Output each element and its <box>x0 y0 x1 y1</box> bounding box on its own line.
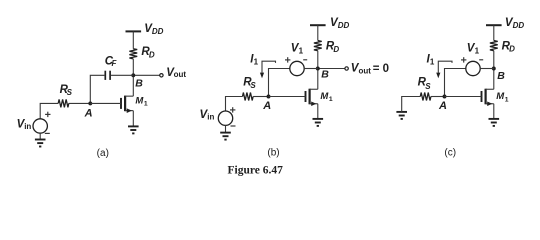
source Vin (a) <box>33 119 47 133</box>
resistor RS (c) <box>420 93 431 101</box>
wire CF to node B (a) <box>111 74 133 76</box>
power rail VDD (a) <box>126 30 142 32</box>
svg-text:B: B <box>497 70 505 82</box>
wire V1 to node B (b) <box>304 68 318 70</box>
ground at RS input (c) <box>396 112 407 119</box>
label V1 (b) <box>291 43 304 56</box>
label M1 (c) <box>496 91 509 103</box>
label A (a) <box>84 107 93 119</box>
label B (c) <box>497 70 505 82</box>
ground at M1 source (b) <box>313 119 324 126</box>
wire RS to node A (a) <box>69 102 91 104</box>
wire node A up to CF (a) <box>90 75 104 103</box>
label B (b) <box>321 69 329 81</box>
wire Vin to ground (b) <box>225 125 227 132</box>
plus sign Vin (a) <box>45 112 50 117</box>
source V1 (b) <box>290 61 304 75</box>
label Vout = 0 (b) <box>351 63 389 76</box>
node A (b) <box>267 95 271 99</box>
node B (b) <box>316 67 320 71</box>
label (a) <box>97 148 109 159</box>
current arrow I1 (c) <box>436 61 452 78</box>
wire Vin to ground (a) <box>39 133 41 140</box>
wire node A up to V1 (c) <box>445 69 467 97</box>
svg-text:1: 1 <box>254 58 259 67</box>
svg-text:D: D <box>149 50 155 59</box>
svg-text:out: out <box>174 70 187 79</box>
source V1 (c) <box>466 61 480 75</box>
label V1 (c) <box>467 43 480 56</box>
wire source to ground (b) <box>317 104 319 119</box>
svg-text:B: B <box>321 69 329 81</box>
resistor RD (b) <box>314 41 322 51</box>
label CF (a) <box>105 55 118 67</box>
svg-text:(a): (a) <box>97 148 109 159</box>
wire source to ground (a) <box>132 111 134 127</box>
ground at M1 source (a) <box>128 126 139 133</box>
wire VDD to RD (b) <box>317 25 319 40</box>
svg-text:DD: DD <box>513 21 525 30</box>
minus sign Vin (b) <box>231 125 236 127</box>
wire VDD to RD (a) <box>132 31 134 48</box>
wire node B to output (a) <box>133 74 159 76</box>
terminal Vout (a) <box>160 74 163 77</box>
transistor M1 (b) <box>306 89 318 106</box>
wire node B to drain (a) <box>132 75 134 96</box>
svg-text:in: in <box>24 122 31 131</box>
svg-text:A: A <box>438 100 447 112</box>
wire Vin up to RS (b) <box>226 97 243 112</box>
svg-text:S: S <box>250 81 256 90</box>
resistor RS (a) <box>58 99 69 107</box>
svg-text:Figure 6.47: Figure 6.47 <box>228 164 284 176</box>
caption Figure 6.47 <box>228 164 284 176</box>
label Vin (a) <box>17 119 32 132</box>
label Vin (b) <box>200 109 215 122</box>
wire gate lead (a) <box>90 102 121 104</box>
svg-text:DD: DD <box>338 21 350 30</box>
label RD (c) <box>502 40 515 53</box>
svg-text:D: D <box>333 45 339 54</box>
node A (a) <box>88 101 92 105</box>
wire RD to node B (c) <box>493 51 495 69</box>
svg-text:A: A <box>262 100 271 112</box>
wire node A up to V1 (b) <box>269 69 291 97</box>
wire node B to drain (b) <box>317 69 319 90</box>
wire source to ground (c) <box>493 104 495 119</box>
label RD (b) <box>326 41 340 54</box>
wire node B to drain (c) <box>493 69 495 90</box>
svg-text:1: 1 <box>475 47 480 56</box>
label RS (a) <box>60 84 73 97</box>
label (b) <box>267 148 279 159</box>
node A (c) <box>443 95 447 99</box>
label RS (c) <box>418 77 432 91</box>
ground at M1 source (c) <box>489 119 500 126</box>
svg-text:(b): (b) <box>267 148 279 159</box>
label RD (a) <box>141 46 155 60</box>
label VDD (b) <box>330 17 349 30</box>
svg-text:in: in <box>207 112 214 121</box>
wire RS to node A (c) <box>431 96 445 98</box>
label I1 (b) <box>250 53 258 66</box>
transistor M1 (c) <box>482 89 494 106</box>
label B (a) <box>135 77 143 89</box>
plus sign V1 (b) <box>285 57 290 62</box>
power rail VDD (b) <box>310 24 326 26</box>
transistor M1 (a) <box>121 96 133 113</box>
ground at Vin (a) <box>35 140 46 147</box>
power rail VDD (c) <box>486 24 502 26</box>
label VDD (c) <box>505 17 524 30</box>
current arrow I1 (b) <box>260 61 276 78</box>
ground at Vin (b) <box>220 133 231 140</box>
svg-text:(c): (c) <box>444 148 456 159</box>
plus sign Vin (b) <box>230 107 235 112</box>
label (c) <box>444 148 456 159</box>
label A (c) <box>438 100 447 112</box>
svg-text:B: B <box>135 77 143 89</box>
minus sign Vin (a) <box>45 132 50 134</box>
resistor RD (c) <box>490 41 498 51</box>
label A (b) <box>262 100 271 112</box>
svg-text:1: 1 <box>430 58 435 67</box>
label RS (b) <box>243 77 256 90</box>
label M1 (b) <box>320 91 333 103</box>
wire RD to node B (b) <box>317 51 319 69</box>
wire RD to node B (a) <box>132 59 134 75</box>
svg-text:= 0: = 0 <box>373 63 389 75</box>
resistor RS (b) <box>243 93 254 101</box>
label M1 (a) <box>135 96 148 108</box>
wire ground up to RS (c) <box>402 97 421 112</box>
svg-text:S: S <box>67 88 73 97</box>
wire gate lead (c) <box>445 96 482 98</box>
resistor RD (a) <box>129 49 137 59</box>
label Vout (a) <box>166 67 186 79</box>
wire V1 to node B (c) <box>480 68 494 70</box>
source Vin (b) <box>218 111 232 125</box>
svg-text:1: 1 <box>329 96 333 103</box>
capacitor CF (a) <box>105 71 110 80</box>
svg-text:1: 1 <box>505 96 509 103</box>
svg-text:A: A <box>84 107 93 119</box>
plus sign V1 (c) <box>461 57 466 62</box>
node B (c) <box>492 67 496 71</box>
wire VDD to RD (c) <box>493 25 495 40</box>
minus sign V1 (c) <box>479 59 483 61</box>
label VDD (a) <box>144 23 163 36</box>
label I1 (c) <box>427 53 435 66</box>
svg-text:D: D <box>509 45 515 54</box>
wire node B to output (b) <box>318 68 345 70</box>
terminal Vout (b) <box>345 67 348 70</box>
svg-text:S: S <box>425 82 431 91</box>
wire gate lead (b) <box>269 96 306 98</box>
svg-text:out: out <box>359 67 372 76</box>
svg-text:1: 1 <box>299 47 304 56</box>
wire RS to node A (b) <box>253 96 268 98</box>
svg-text:DD: DD <box>152 27 164 36</box>
minus sign V1 (b) <box>303 59 307 61</box>
svg-text:F: F <box>112 59 118 68</box>
node B (a) <box>131 73 135 77</box>
svg-text:1: 1 <box>144 101 148 108</box>
wire Vin up to RS (a) <box>40 103 58 119</box>
